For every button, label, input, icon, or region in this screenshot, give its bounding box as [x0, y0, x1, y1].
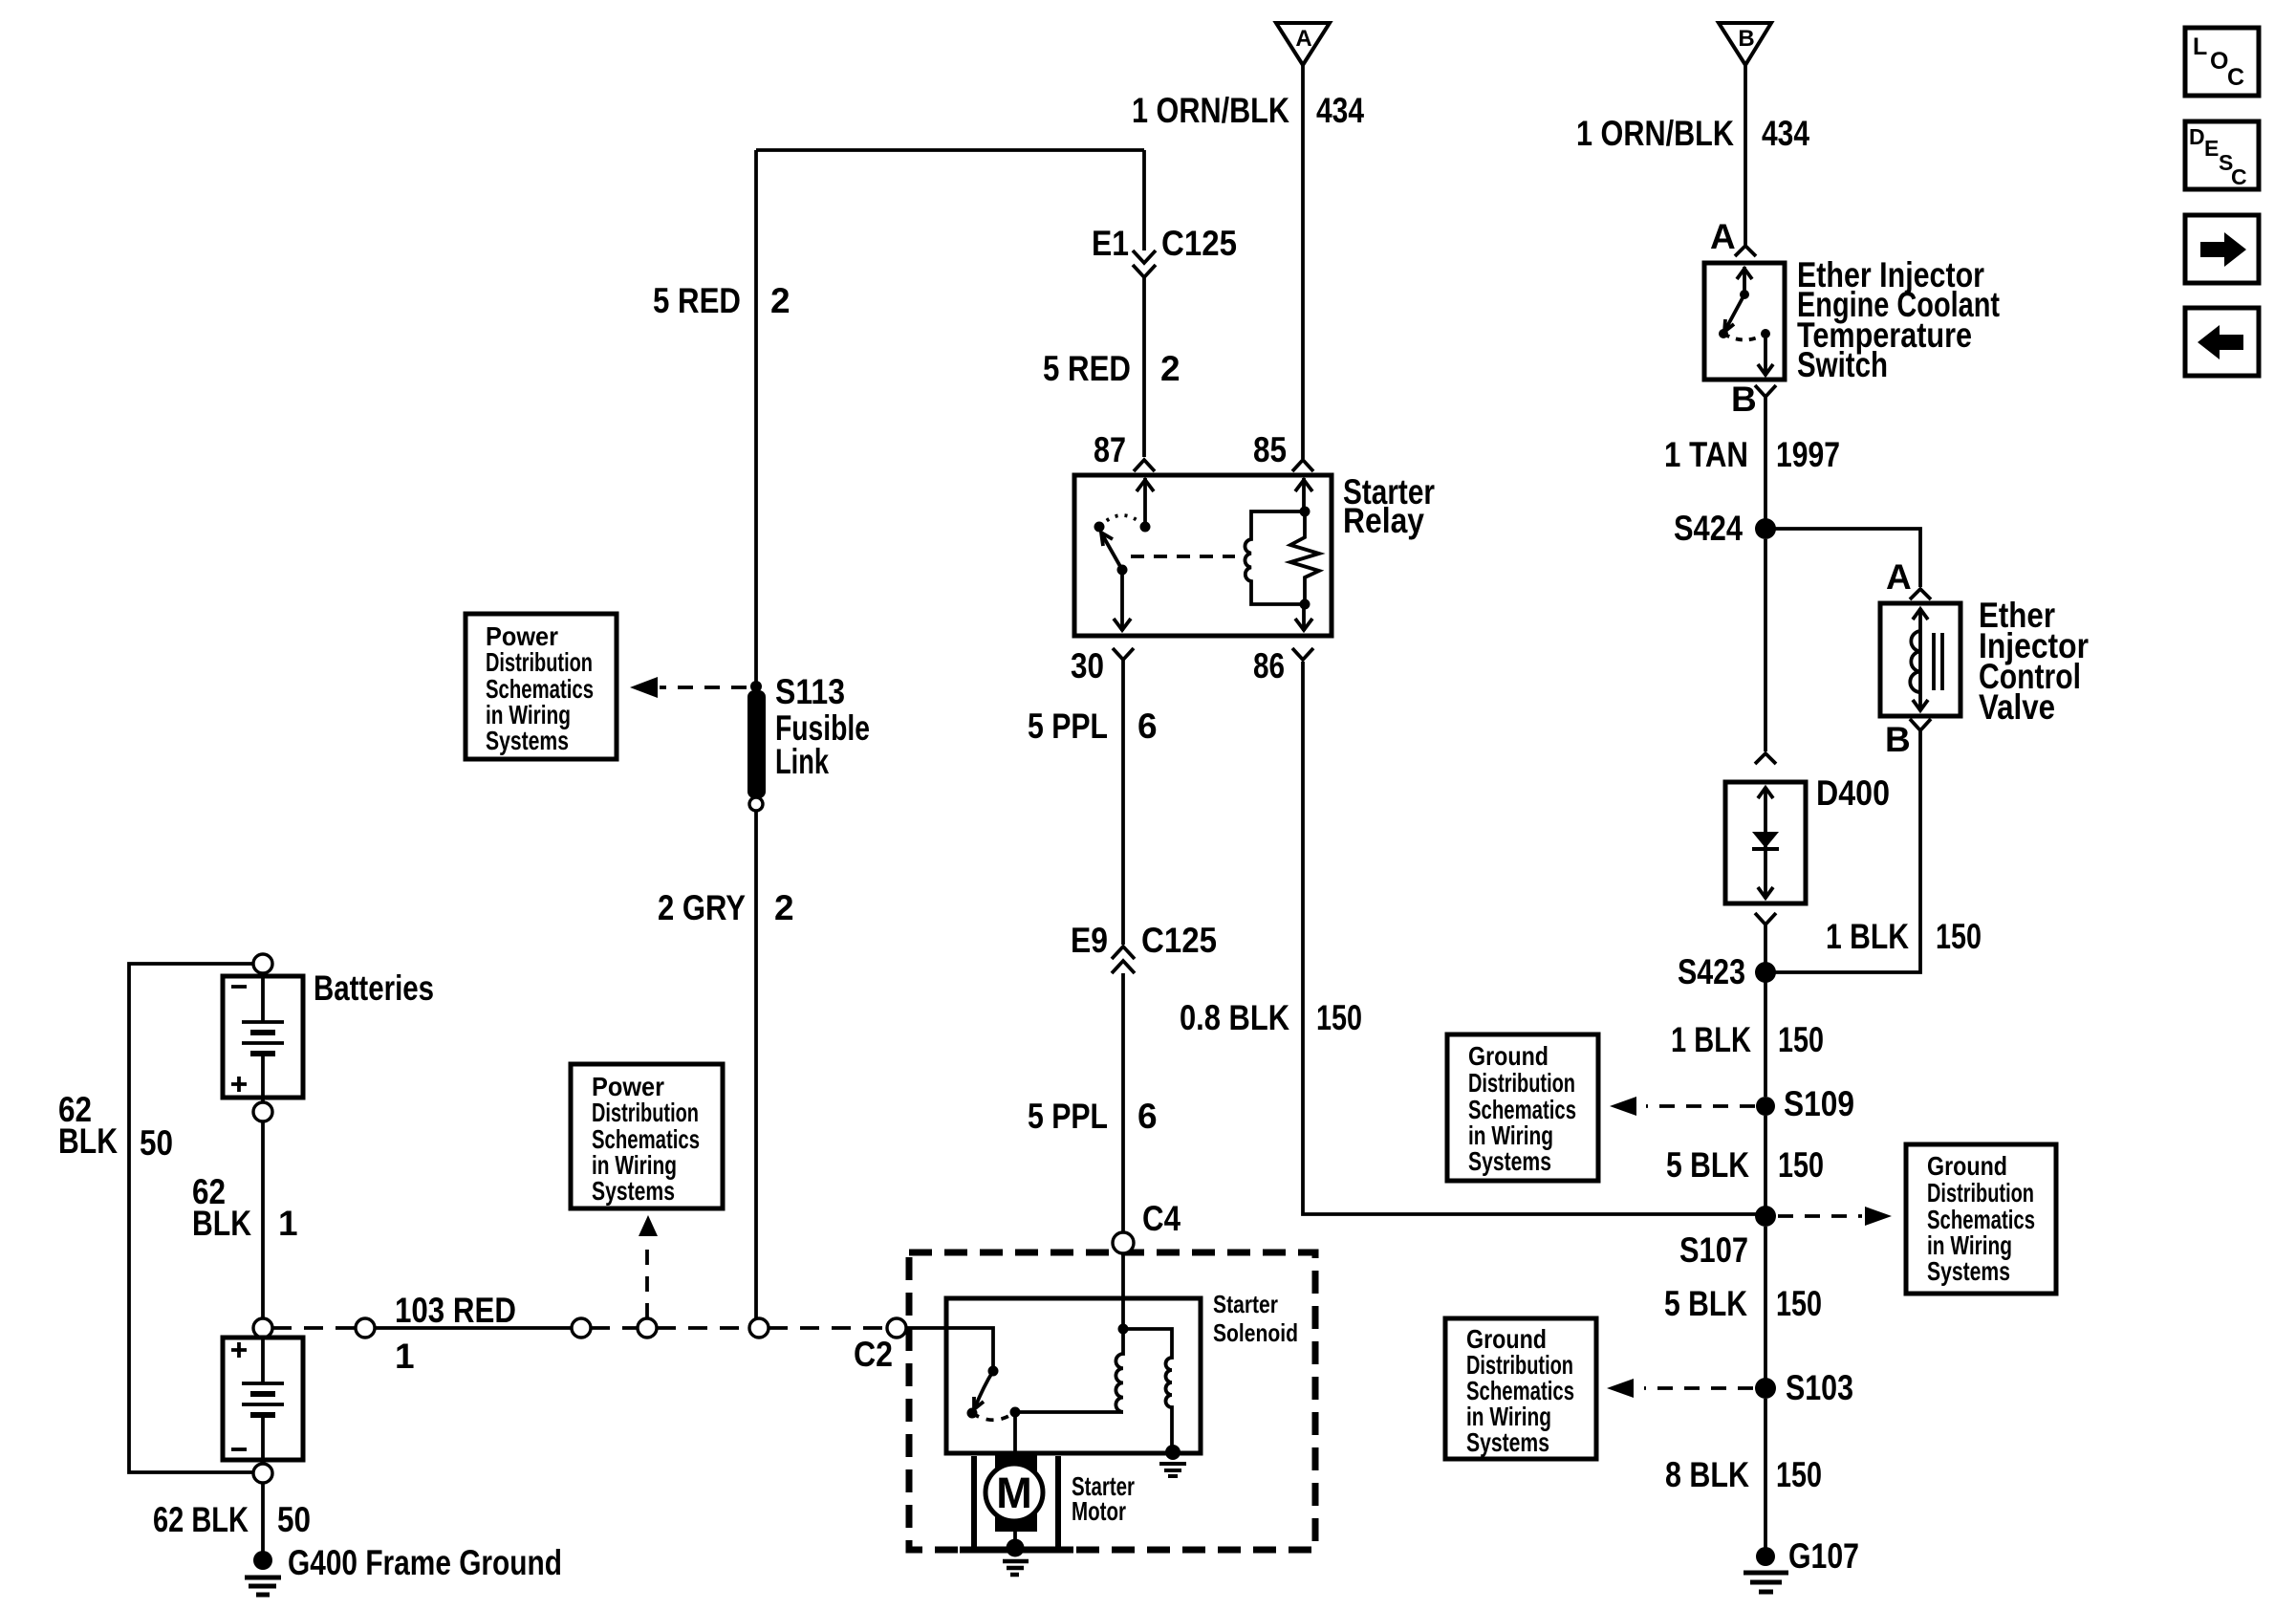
svg-text:62 BLK: 62 BLK: [153, 1500, 249, 1539]
pin 85 label and chevron: [1253, 430, 1313, 471]
svg-text:E9: E9: [1071, 921, 1108, 960]
battery mid terminal circle: [253, 1102, 272, 1121]
splice S107 dot: [1755, 1206, 1776, 1227]
svg-text:C2: C2: [854, 1335, 893, 1374]
svg-text:50: 50: [277, 1500, 311, 1539]
solenoid pull-in winding: [1116, 1329, 1123, 1412]
motor bracket right: [1055, 1456, 1061, 1547]
switch dotted travel arc: [1723, 334, 1765, 340]
pin B label and chevron: [1731, 380, 1776, 419]
wire 5 BLK from S107 to S103: [1764, 1227, 1767, 1379]
label 1 BLK 150: [1671, 1020, 1824, 1059]
relay coil: [1245, 507, 1310, 610]
ground G400 symbol: [245, 1551, 281, 1595]
svg-text:G107: G107: [1788, 1536, 1859, 1576]
splice circle with branch to power distribution: [638, 1318, 657, 1338]
label 1 BLK 150 (valve branch): [1826, 917, 1982, 956]
branch wire from S424 to control valve pin A: [1765, 529, 1920, 587]
battery 1 (upper): [223, 973, 303, 1102]
pin 86 label and chevron: [1253, 646, 1313, 685]
svg-text:Systems: Systems: [1927, 1256, 2010, 1286]
battery loop wire (62 BLK 50): [129, 964, 253, 1472]
svg-text:E: E: [2204, 136, 2219, 161]
svg-text:50: 50: [140, 1123, 173, 1163]
label 5 BLK 150 (upper): [1666, 1145, 1824, 1185]
svg-text:E1: E1: [1092, 224, 1129, 263]
wire from S424 down to D400: [1764, 539, 1767, 751]
LOC navigation icon: [2185, 28, 2259, 96]
svg-text:2: 2: [1160, 349, 1180, 388]
motor base bar: [960, 1547, 1073, 1554]
svg-text:B: B: [1738, 26, 1754, 52]
svg-text:1 TAN: 1 TAN: [1664, 435, 1748, 474]
svg-text:C4: C4: [1142, 1199, 1180, 1238]
valve core bars: [1934, 633, 1942, 690]
relay dotted travel arc: [1099, 515, 1145, 527]
switch internal pin A arrow and contact: [1737, 267, 1752, 299]
wire from A triangle down to relay pin 85: [1301, 65, 1305, 459]
starter solenoid box: [946, 1298, 1201, 1453]
node B (page connector triangle): [1719, 23, 1771, 65]
relay resistor zigzag: [1290, 511, 1319, 604]
label Starter Relay: [1343, 472, 1435, 540]
reference box: Power Distribution Schematics in Wiring Systems (upper): [466, 614, 617, 759]
relay pin 30 internal line with down arrow: [1114, 570, 1131, 631]
svg-text:D400: D400: [1816, 773, 1890, 813]
relay dashed actuation link: [1131, 555, 1235, 558]
fusible link lower terminal circle: [749, 797, 763, 811]
label 5 PPL 6 (lower): [1028, 1097, 1158, 1136]
svg-text:150: 150: [1936, 917, 1982, 956]
inline connector circle: [356, 1318, 375, 1338]
connector E1 C125 (double chevron): [1092, 224, 1237, 277]
wire 62 BLK 1 between batteries: [261, 1121, 265, 1318]
node A (page connector triangle): [1276, 23, 1330, 65]
svg-text:C125: C125: [1161, 224, 1237, 263]
motor bracket left: [971, 1456, 977, 1547]
solenoid winding junction dot: [1118, 1324, 1129, 1335]
solenoid hold-in winding: [1123, 1329, 1172, 1455]
svg-text:M: M: [996, 1469, 1032, 1517]
valve pin B label and chevron: [1885, 719, 1931, 759]
solenoid coil ground symbol: [1159, 1445, 1186, 1476]
svg-text:86: 86: [1253, 646, 1285, 685]
ether injector control valve box: [1880, 603, 1960, 716]
svg-text:O: O: [2210, 48, 2228, 75]
inline connector circle: [572, 1318, 591, 1338]
wire 0.8 BLK: A circuit continues down then right to S107: [1303, 662, 1759, 1214]
ground G107 symbol: [1744, 1547, 1788, 1592]
svg-text:Systems: Systems: [1466, 1427, 1549, 1457]
splice S423 dot: [1755, 962, 1776, 983]
switch contact dot (left): [1719, 329, 1728, 338]
label 1 TAN 1997: [1664, 435, 1840, 474]
wire: top horizontal feed from fusible link to E1: [756, 148, 1144, 152]
connector E9 C125 (double chevron up): [1071, 921, 1217, 973]
solenoid switch pivot dot: [988, 1366, 999, 1377]
svg-text:C125: C125: [1141, 921, 1217, 960]
solenoid switch contact dot (left): [967, 1408, 978, 1419]
svg-text:87: 87: [1094, 430, 1126, 469]
label 5 PPL 6 (upper): [1028, 707, 1158, 746]
svg-text:A: A: [1886, 557, 1912, 597]
svg-text:S109: S109: [1784, 1084, 1854, 1123]
splice circle at battery positive / 103 RED: [253, 1318, 272, 1338]
label 62 BLK 50 (loop): [58, 1090, 173, 1163]
dashed wire 103 RED segment 2: [591, 1326, 638, 1330]
splice S424 dot: [1755, 518, 1776, 539]
svg-text:5 BLK: 5 BLK: [1666, 1145, 1749, 1185]
svg-text:BLK: BLK: [58, 1121, 118, 1161]
splice S109 dot: [1756, 1097, 1775, 1116]
battery 2 (lower): [223, 1338, 303, 1464]
battery bottom terminal circle: [253, 1464, 272, 1483]
diode D400 box: [1725, 782, 1806, 903]
pin 87 label and chevron: [1094, 430, 1155, 471]
svg-text:85: 85: [1253, 430, 1287, 469]
diode symbol: [1752, 832, 1779, 849]
svg-text:1: 1: [395, 1337, 415, 1376]
svg-text:Distribution: Distribution: [486, 647, 593, 677]
svg-text:5 PPL: 5 PPL: [1028, 707, 1108, 746]
svg-text:Systems: Systems: [1468, 1146, 1551, 1176]
svg-text:1 BLK: 1 BLK: [1671, 1020, 1751, 1059]
pin 86 chevron tail label 0.8 BLK 150: [1180, 998, 1362, 1037]
svg-text:1997: 1997: [1776, 435, 1840, 474]
svg-text:1: 1: [278, 1204, 298, 1243]
wire from switch contact to windings: [1015, 1410, 1123, 1414]
wire 1 TAN from switch to S424: [1764, 397, 1767, 521]
svg-text:B: B: [1885, 720, 1911, 759]
svg-text:150: 150: [1316, 998, 1362, 1037]
switch arm with arrow: [1724, 294, 1744, 332]
label Ether Injector Control Valve: [1979, 596, 2089, 727]
switch contact dot (right) with down arrow to pin B: [1758, 329, 1773, 376]
svg-text:5 RED: 5 RED: [1043, 349, 1131, 388]
reference box: Ground Distribution Schematics in Wiring Systems (lower): [1445, 1318, 1596, 1459]
dashed branch up with arrow to power distribution box: [639, 1215, 658, 1318]
svg-text:2: 2: [774, 888, 794, 927]
relay switch arm with arrow: [1101, 533, 1128, 576]
label 8 BLK 150: [1665, 1455, 1822, 1494]
wire from switch contact down to starter motor: [1013, 1412, 1017, 1463]
D400 bottom chevron: [1755, 913, 1776, 925]
svg-text:434: 434: [1316, 91, 1364, 130]
svg-text:1 BLK: 1 BLK: [1826, 917, 1909, 956]
label 5 BLK 150 (lower): [1664, 1284, 1822, 1323]
label 2 GRY 2: [658, 888, 794, 927]
svg-text:Distribution: Distribution: [1468, 1068, 1575, 1098]
pin 30 label and chevron: [1071, 646, 1134, 685]
next-page navigation icon: [2185, 215, 2259, 283]
starter relay U1 box: [1074, 475, 1332, 636]
svg-text:150: 150: [1776, 1284, 1822, 1323]
dashed reference arrow from S109 to ground distribution box: [1610, 1097, 1755, 1116]
svg-text:Batteries: Batteries: [314, 968, 434, 1008]
dashed reference arrow from S113 to power distribution box: [630, 677, 747, 698]
svg-text:103 RED: 103 RED: [395, 1291, 516, 1330]
wire 1 BLK from valve pin B down to S423: [1774, 730, 1920, 972]
svg-text:S424: S424: [1674, 509, 1743, 548]
svg-text:S107: S107: [1679, 1230, 1748, 1270]
svg-text:A: A: [1710, 217, 1736, 256]
svg-text:5 PPL: 5 PPL: [1028, 1097, 1108, 1136]
solenoid switch contact dot (right): [1010, 1407, 1021, 1418]
svg-text:Systems: Systems: [592, 1176, 675, 1206]
connector C2 circle: [887, 1318, 906, 1338]
wire 5 PPL from relay pin 30 down to connector E9: [1121, 660, 1125, 945]
wire from C4 into solenoid: [1121, 1253, 1125, 1329]
reference box: Power Distribution Schematics in Wiring Systems (lower): [571, 1064, 723, 1208]
svg-text:5 RED: 5 RED: [653, 281, 741, 320]
svg-text:150: 150: [1778, 1020, 1824, 1059]
valve internal plunger line with arrows: [1913, 608, 1928, 711]
relay pin 87 internal contact with up arrow: [1137, 478, 1154, 533]
splice S113 junction dot: [750, 681, 762, 692]
svg-text:1 ORN/BLK: 1 ORN/BLK: [1576, 114, 1734, 153]
valve coil bumps: [1910, 631, 1920, 692]
svg-text:0.8 BLK: 0.8 BLK: [1180, 998, 1289, 1037]
svg-text:6: 6: [1137, 707, 1158, 746]
label 1 ORN/BLK 434 (circuit B): [1576, 114, 1809, 153]
svg-text:1 ORN/BLK: 1 ORN/BLK: [1132, 91, 1289, 130]
D400 top chevron: [1755, 753, 1776, 764]
label 103 RED 1: [395, 1291, 516, 1376]
svg-text:S113: S113: [775, 672, 845, 711]
svg-text:BLK: BLK: [192, 1204, 251, 1243]
svg-text:S423: S423: [1678, 952, 1745, 991]
wire: E1 vertical down to connector C125: [1142, 150, 1146, 250]
wire 2 GRY from fusible link down to 103 RED splice: [754, 811, 758, 1318]
svg-text:G400 Frame Ground: G400 Frame Ground: [288, 1543, 562, 1582]
svg-text:B: B: [1731, 380, 1757, 419]
label Starter Solenoid: [1213, 1290, 1298, 1347]
DESC navigation icon: [2185, 121, 2259, 189]
fusible link body: [747, 690, 766, 798]
label 62 BLK 50 (lower): [153, 1500, 311, 1539]
svg-text:A: A: [1295, 26, 1311, 52]
solid wire 103 RED: [375, 1326, 572, 1330]
wire 5 PPL from E9 down to C4: [1121, 973, 1125, 1232]
relay fixed contact dot: [1094, 522, 1105, 533]
svg-text:150: 150: [1776, 1455, 1822, 1494]
relay pin 86 internal with down arrow: [1295, 604, 1312, 631]
svg-text:Motor: Motor: [1072, 1496, 1126, 1526]
svg-text:8 BLK: 8 BLK: [1665, 1455, 1749, 1494]
wire from B triangle to coolant switch pin A: [1744, 65, 1747, 245]
svg-text:S103: S103: [1786, 1368, 1853, 1407]
dashed wire 103 RED segment 1: [272, 1326, 356, 1330]
motor ground symbol: [1003, 1532, 1029, 1575]
solenoid dashed travel arc: [972, 1412, 1015, 1420]
svg-text:Solenoid: Solenoid: [1213, 1318, 1298, 1347]
label Ether Injector Engine Coolant Temperature Switch: [1797, 255, 2000, 384]
svg-text:150: 150: [1778, 1145, 1824, 1185]
wire 5 BLK from S109 to S107: [1764, 1116, 1767, 1207]
dashed wire 103 RED segment 4: [769, 1326, 887, 1330]
svg-text:30: 30: [1071, 646, 1104, 685]
previous-page navigation icon: [2185, 308, 2259, 376]
connector C4 circle: [1113, 1232, 1134, 1253]
svg-text:Distribution: Distribution: [592, 1098, 699, 1127]
svg-text:Link: Link: [775, 742, 829, 781]
svg-text:Starter: Starter: [1213, 1290, 1278, 1318]
wire from D400 to S423: [1764, 925, 1767, 1097]
pin A label and chevron: [1710, 217, 1756, 256]
svg-text:2: 2: [770, 281, 791, 320]
svg-text:Ground: Ground: [1927, 1151, 2007, 1181]
ether injector coolant temperature switch box: [1704, 263, 1785, 380]
svg-text:5 BLK: 5 BLK: [1664, 1284, 1747, 1323]
svg-text:Ground: Ground: [1468, 1041, 1549, 1071]
reference box: Ground Distribution Schematics in Wiring Systems (upper): [1447, 1034, 1598, 1181]
label S113 Fusible Link: [775, 672, 870, 781]
solenoid switch arm with arrow: [974, 1371, 993, 1409]
wire 8 BLK from S103 to G107: [1764, 1399, 1767, 1549]
svg-text:434: 434: [1762, 114, 1809, 153]
label 5 RED 2 (right): [1043, 349, 1180, 388]
label Starter Motor: [1072, 1471, 1135, 1526]
svg-text:Systems: Systems: [486, 726, 569, 755]
dashed reference arrow from S103 to ground distribution box: [1607, 1379, 1753, 1398]
svg-text:C: C: [2227, 64, 2244, 91]
starter motor M1: [986, 1454, 1043, 1532]
valve pin A label and chevron: [1886, 557, 1931, 599]
splice circle where 2 GRY joins: [749, 1318, 769, 1338]
svg-text:Valve: Valve: [1979, 687, 2055, 727]
label 62 BLK 1: [192, 1172, 298, 1243]
wire 5 RED from C125 to relay pin 87: [1142, 277, 1146, 457]
svg-text:Distribution: Distribution: [1927, 1178, 2034, 1207]
reference box: Ground Distribution Schematics in Wiring Systems (right): [1906, 1144, 2056, 1294]
svg-text:C: C: [2231, 164, 2247, 189]
starter assembly dashed boundary box: [909, 1252, 1315, 1550]
svg-text:6: 6: [1137, 1097, 1158, 1136]
battery top terminal circle: [253, 954, 272, 973]
label 5 RED 2 (left): [653, 281, 791, 320]
svg-text:2 GRY: 2 GRY: [658, 888, 746, 927]
diode internal line with arrows: [1758, 787, 1773, 899]
wire: 5 RED vertical (left) down to S113: [754, 150, 758, 685]
svg-text:Relay: Relay: [1343, 501, 1424, 540]
svg-text:Switch: Switch: [1797, 345, 1888, 384]
splice S103 dot: [1755, 1378, 1776, 1399]
relay pin 85 internal with up arrow: [1295, 478, 1312, 511]
wire from C2 into solenoid switch: [906, 1328, 993, 1367]
wire 62 BLK 50 to frame ground: [261, 1483, 265, 1553]
label 1 ORN/BLK 434 (circuit A): [1132, 91, 1364, 130]
svg-text:L: L: [2193, 33, 2207, 60]
svg-text:D: D: [2189, 124, 2205, 149]
dashed reference arrow from S107 to ground distribution box: [1778, 1207, 1892, 1226]
dashed wire 103 RED segment 3: [657, 1326, 749, 1330]
